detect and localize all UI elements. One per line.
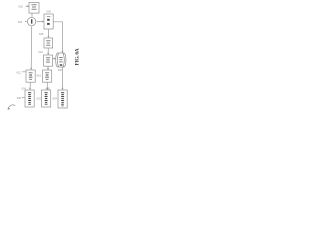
svg-text:608: 608	[39, 32, 44, 36]
svg-text:620: 620	[58, 68, 63, 72]
svg-text:634: 634	[53, 96, 58, 100]
svg-text:604: 604	[18, 20, 23, 24]
svg-text:632: 632	[37, 96, 42, 100]
svg-text:610: 610	[39, 50, 44, 54]
svg-text:FIG. 6A: FIG. 6A	[75, 48, 81, 65]
svg-text:606: 606	[47, 10, 52, 14]
svg-text:626: 626	[46, 86, 51, 90]
svg-text:616: 616	[37, 74, 42, 78]
svg-text:602: 602	[19, 5, 24, 9]
svg-text:612: 612	[17, 70, 22, 74]
svg-text:624: 624	[22, 86, 27, 90]
svg-text:630: 630	[17, 96, 22, 100]
